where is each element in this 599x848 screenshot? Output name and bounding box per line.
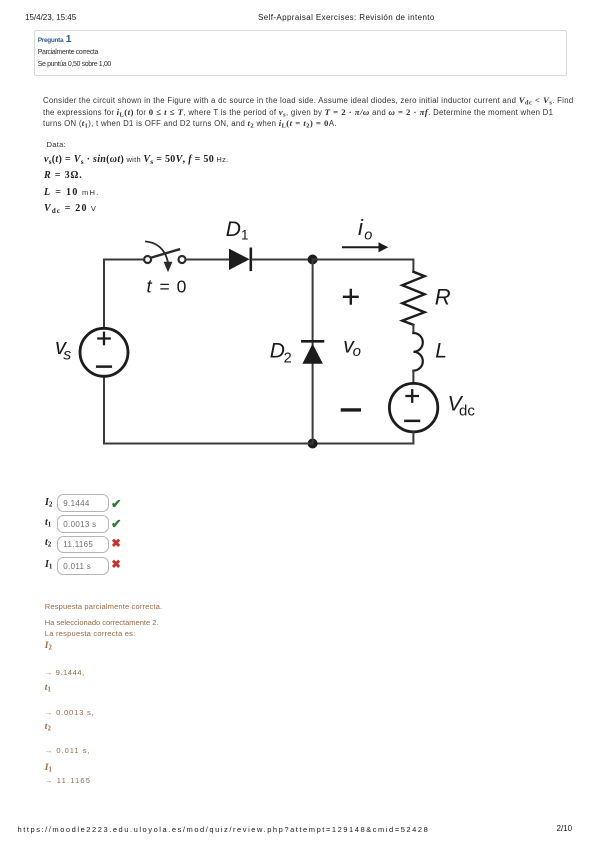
label D1 [226,218,249,242]
svg-text:L: L [435,339,447,362]
label t = 0 [147,275,188,296]
question paragraph [43,95,588,130]
data line R [44,170,83,181]
page header title [258,13,435,22]
page footer page number [557,824,573,833]
ac source vs (circle with polarity) [80,328,128,376]
label R [435,285,451,310]
label io [358,215,372,244]
wire: resistor to inductor [412,325,414,333]
svg-text:o: o [364,227,372,243]
wire: bottom rail right segment [313,443,414,445]
data line L [44,187,100,198]
svg-text:R: R [435,285,451,310]
wire: D2 branch (node A to node B) [312,260,314,444]
current arrow io [343,242,388,252]
resistor R [402,272,424,325]
polarity + for vo [344,290,358,304]
wire: inductor to Vdc source [412,371,414,384]
svg-text:o: o [353,343,361,360]
page footer url [18,825,430,834]
diode D2 (pointing up, cathode bar on top) [302,341,323,364]
wire: left rail upper (vs+ to top-left corner to switch left terminal) [104,260,144,329]
svg-text:D: D [226,218,241,241]
polarity - for vo [342,408,359,411]
node B (junction dot, bottom of D2 branch) [308,439,318,449]
feedback block [45,602,162,611]
wire: bottom rail left segment to vs- [104,376,313,443]
answer row I2 [45,497,52,508]
data line vs(t) [44,154,229,165]
diode D1 [229,249,251,270]
label Vdc [448,392,476,419]
answer row t1 [45,517,51,528]
data line Vdc [44,203,97,214]
svg-text:= 0: = 0 [160,276,188,296]
svg-text:1: 1 [241,228,249,243]
svg-text:t: t [147,275,153,296]
label L [435,339,447,362]
svg-text:2: 2 [284,350,292,366]
svg-text:dc: dc [459,402,475,419]
svg-text:s: s [63,346,71,363]
label vs [55,334,71,364]
page header date [25,13,76,22]
answer row t2 [45,537,51,548]
wire: switch right terminal to D1 anode [186,259,229,261]
label vo [343,334,361,359]
answer row I1 [45,559,52,570]
wire: node A to top-right corner down to resistor [313,260,414,272]
inductor L (two right-bulging turns) [413,333,422,371]
wire: Vdc to bottom-right corner [412,432,414,444]
svg-text:i: i [358,215,364,240]
wire: D1 cathode to node A [252,259,313,261]
switch t=0 (open blade with closing arrow) [144,242,185,273]
question info box [34,30,567,76]
dc source Vdc (circle with polarity) [389,383,437,431]
node A (junction dot, top of D2 branch) [308,255,318,265]
data heading [47,140,66,149]
label D2 [270,340,292,367]
